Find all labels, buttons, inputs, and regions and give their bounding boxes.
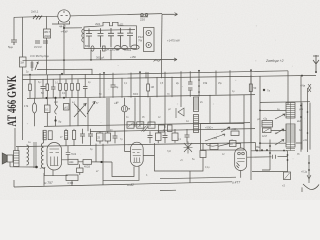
capacitor C8 electrolytic bbox=[24, 98, 37, 126]
arrow right top bbox=[162, 13, 178, 16]
switch S2 triangle bbox=[176, 108, 184, 118]
resistor R27 bbox=[230, 141, 237, 147]
junction dot right bbox=[263, 89, 265, 91]
svg-text:220: 220 bbox=[140, 18, 145, 22]
tuner block box bbox=[84, 22, 137, 48]
resistor R10 bbox=[147, 72, 154, 97]
rectifier chain right bbox=[308, 84, 311, 92]
wires bottom right bbox=[162, 142, 256, 178]
choke L1 on rail bbox=[31, 10, 42, 20]
svg-text:+1/4: +1/4 bbox=[212, 136, 218, 140]
wire stub bottom bbox=[160, 189, 176, 191]
svg-text:+50Ω+: +50Ω+ bbox=[205, 126, 213, 130]
capacitor C6 bbox=[111, 73, 119, 98]
svg-text:35a: 35a bbox=[256, 146, 261, 149]
svg-text:0,1: 0,1 bbox=[45, 107, 49, 111]
capacitor C14 bbox=[185, 129, 190, 143]
wire v150 bbox=[149, 97, 151, 126]
resistor R16b box bbox=[48, 131, 52, 140]
wire tube V3 to chain bbox=[252, 171, 288, 173]
resistor R12b bbox=[64, 104, 70, 111]
svg-text:Δ21: Δ21 bbox=[120, 23, 125, 26]
wire bus inside bbox=[84, 29, 135, 32]
IF can boxes on rail D bbox=[127, 122, 134, 128]
band switch S3 star bbox=[184, 142, 193, 154]
resistor R15b bbox=[263, 128, 272, 133]
resistor R2 box bbox=[20, 57, 27, 67]
svg-text:40Ω3: 40Ω3 bbox=[84, 166, 91, 169]
scattered value labels bbox=[26, 72, 300, 178]
wire v172 bbox=[171, 77, 173, 97]
scan speckles bbox=[25, 19, 320, 172]
capacitor C9 bbox=[80, 129, 85, 144]
capacitor C9c bbox=[66, 150, 77, 159]
tuned circuit 2 bbox=[98, 28, 104, 47]
resistor R19 box h bbox=[83, 160, 92, 169]
output transformer TR1 winding 1 bbox=[27, 145, 29, 165]
wire rail D2 bbox=[90, 129, 255, 132]
tuned circuit 3 bbox=[108, 28, 114, 47]
svg-text:1217: 1217 bbox=[262, 136, 268, 138]
wire v107 v109 pair bbox=[107, 98, 109, 132]
capacitor C15 small bbox=[247, 155, 288, 159]
junction cluster left of ladder bbox=[256, 146, 268, 152]
resistor R16 vertical hatched bbox=[65, 129, 68, 146]
wire stubs box to rail0 bbox=[91, 50, 111, 60]
wire v157 bbox=[156, 77, 158, 97]
resistor R22 bbox=[105, 132, 111, 144]
resistor R20 below bbox=[66, 175, 78, 185]
wire connectors to ladder bbox=[260, 110, 286, 143]
potentiometer R13 arrow bbox=[221, 127, 230, 132]
capacitor C3 bbox=[41, 79, 46, 98]
wire v100 bbox=[99, 73, 101, 98]
wire v210 bbox=[209, 95, 211, 124]
resistor R15 bbox=[262, 118, 273, 128]
svg-text:3 0r 3M 5μ 6μμ: 3 0r 3M 5μ 6μμ bbox=[30, 54, 49, 58]
resistor R20b small bbox=[77, 168, 84, 173]
trimmer T1 bbox=[91, 46, 94, 51]
pickup box bbox=[201, 95, 245, 150]
wave switch arrows bbox=[87, 98, 95, 131]
wire v199 dots bbox=[198, 71, 200, 97]
resistor R17 vertical bbox=[73, 129, 76, 146]
svg-text:2μF: 2μF bbox=[54, 102, 59, 104]
TR1 winding 2 bbox=[41, 143, 43, 168]
capacitor C12 bbox=[148, 131, 153, 143]
wire drop x46 lower bbox=[46, 38, 48, 74]
wire rail A bbox=[23, 71, 289, 75]
svg-text:+150: +150 bbox=[130, 55, 136, 59]
plug 220V bbox=[140, 13, 148, 21]
coil L3 circle bbox=[114, 98, 131, 152]
wire right box top bbox=[260, 101, 310, 104]
wire v135 bbox=[134, 98, 136, 127]
TR1 core bbox=[34, 142, 36, 168]
capacitor C1 bbox=[8, 40, 17, 49]
svg-text:1M: 1M bbox=[151, 86, 154, 89]
wire v30 bbox=[29, 75, 31, 84]
resistor R12 bbox=[45, 98, 51, 126]
resistor R6 bbox=[59, 74, 62, 98]
wire speaker leads bbox=[10, 128, 37, 167]
svg-text:u.dl2: u.dl2 bbox=[127, 183, 134, 187]
resistor R1 box 3817 bbox=[44, 29, 51, 38]
svg-text:u524: u524 bbox=[95, 24, 101, 26]
wire right verticals lower bbox=[296, 143, 302, 192]
svg-text:u.4T7: u.4T7 bbox=[232, 181, 240, 185]
resistor R14 bbox=[231, 128, 239, 136]
wire rail E right ext bbox=[251, 150, 287, 152]
chain right mid bbox=[262, 140, 271, 171]
wire TR1 top to rail bbox=[43, 132, 45, 144]
wire v302 low bbox=[301, 103, 303, 150]
resistor R11 bbox=[249, 70, 257, 143]
wire vertical x162 bbox=[161, 14, 164, 59]
svg-text:7W: 7W bbox=[138, 39, 143, 43]
capacitor C4 bbox=[51, 79, 56, 98]
lamp box lower bbox=[282, 172, 291, 188]
wire below R2 bbox=[22, 67, 24, 140]
svg-text:+0,1μ: +0,1μ bbox=[301, 171, 308, 174]
transformer TR2 ladder bbox=[286, 103, 295, 119]
wire bottom rail right bbox=[160, 177, 236, 179]
squiggle on rail0 end bbox=[154, 60, 161, 62]
tube V3 rectifier bbox=[235, 148, 247, 171]
V curve bottom right bbox=[303, 184, 319, 190]
trimmer T2 bbox=[103, 46, 106, 51]
junction dots rail A bbox=[29, 74, 31, 76]
wire left column x22 bbox=[22, 17, 24, 57]
wires V2 bottom bbox=[103, 143, 162, 180]
svg-text:BF8: BF8 bbox=[85, 44, 90, 48]
socket P1 bbox=[144, 28, 155, 52]
wire v131 bbox=[130, 73, 132, 98]
wire v35 bbox=[34, 79, 36, 98]
svg-text:17k: 17k bbox=[24, 104, 29, 108]
resistor R9 bbox=[77, 79, 80, 98]
svg-text:Δ2k: Δ2k bbox=[69, 161, 74, 164]
svg-text:+Na: +Na bbox=[300, 84, 306, 88]
junction dot TR1 bbox=[35, 166, 38, 169]
resistor R8 bbox=[71, 74, 74, 98]
coil L2 left bumps bbox=[82, 29, 84, 42]
svg-text:5μμ: 5μμ bbox=[8, 45, 13, 49]
chain right x309 bbox=[301, 155, 311, 183]
tube V1 output bbox=[47, 143, 62, 171]
chain below ladder bbox=[283, 150, 288, 172]
tuned circuit 5 bbox=[127, 28, 133, 47]
coil L4 bbox=[194, 97, 199, 112]
svg-text:μ01: μ01 bbox=[64, 106, 69, 109]
svg-text:15k: 15k bbox=[203, 81, 208, 85]
wire rail 0 bbox=[23, 58, 162, 61]
trimmer ovals row bbox=[115, 46, 121, 50]
switch arrow S5b bbox=[275, 129, 284, 134]
svg-text:1M: 1M bbox=[20, 61, 24, 65]
svg-text:7102: 7102 bbox=[71, 154, 77, 156]
svg-text:25μ: 25μ bbox=[218, 83, 223, 85]
svg-text:+012+: +012+ bbox=[231, 128, 238, 131]
wire rail C bbox=[27, 95, 255, 99]
wire top rail bbox=[14, 14, 162, 18]
svg-text:6800: 6800 bbox=[133, 94, 139, 96]
wire rail F bbox=[14, 182, 232, 187]
svg-text:+1475 kW: +1475 kW bbox=[167, 39, 180, 43]
resistor R18 box h bbox=[68, 159, 78, 164]
wire drop x46 bbox=[46, 16, 48, 29]
switch arrow S5c bbox=[275, 140, 284, 146]
capacitor C11 bbox=[113, 132, 118, 144]
resistor R5 bbox=[46, 75, 49, 99]
resistor R16a hatched bbox=[43, 130, 46, 140]
wire v165b bbox=[164, 97, 166, 128]
wire x161 stub bbox=[146, 60, 162, 79]
svg-text:μμ μμ: μμ μμ bbox=[34, 45, 42, 49]
capacitor C2 pair bbox=[34, 41, 48, 49]
tube V0 ballast circle bbox=[52, 10, 70, 24]
wire left drop x14 bbox=[13, 17, 15, 40]
wire feedback loop bbox=[37, 69, 92, 74]
svg-text:2μ: 2μ bbox=[176, 81, 179, 85]
svg-text:a-t: a-t bbox=[72, 101, 75, 104]
wire v230 bbox=[229, 70, 231, 123]
svg-text:Zweitspr.+2: Zweitspr.+2 bbox=[265, 59, 284, 63]
wire v122 bbox=[121, 78, 123, 98]
wire rail E bbox=[16, 143, 255, 147]
resistor R21 bbox=[97, 132, 104, 144]
wire v165 bbox=[164, 72, 166, 98]
svg-text:0,1μ: 0,1μ bbox=[205, 167, 210, 169]
coil L5 bbox=[194, 115, 199, 133]
arrow right lower bbox=[162, 58, 178, 61]
resistor R4 bbox=[29, 84, 32, 98]
tuned circuit 4 bbox=[118, 28, 124, 47]
antenna arrow top right bbox=[313, 55, 319, 71]
capacitor C7 stack bbox=[188, 71, 193, 97]
svg-text:3817: 3817 bbox=[44, 30, 50, 34]
resistor R23 bbox=[156, 131, 162, 143]
svg-text:u.T97: u.T97 bbox=[45, 181, 53, 185]
band switch S1 bbox=[54, 98, 61, 126]
wire rail B bbox=[23, 75, 317, 79]
right block outer box bbox=[251, 71, 308, 180]
wire risers to rail F bbox=[14, 171, 190, 187]
wire tube to coil bbox=[64, 24, 82, 74]
svg-text:2x0,1: 2x0,1 bbox=[31, 10, 39, 14]
svg-text:AT 466 GWK: AT 466 GWK bbox=[4, 75, 19, 127]
bottom left: speaker bbox=[2, 151, 19, 167]
switch arrow S5a bbox=[275, 114, 285, 119]
capacitor C10 bbox=[88, 129, 93, 146]
wire v181 bbox=[180, 71, 182, 107]
wire v216 bbox=[215, 71, 217, 95]
wire v140 bbox=[139, 72, 141, 127]
resistor R25 bbox=[172, 129, 178, 143]
tube V2 bbox=[131, 142, 144, 166]
wire v104 bbox=[103, 73, 105, 98]
potentiometer R3 bbox=[31, 61, 39, 71]
resistor R7 bbox=[65, 79, 68, 98]
capacitor C5 bbox=[83, 74, 88, 98]
svg-text:+2μ: +2μ bbox=[263, 118, 268, 121]
svg-text:361 μΛ: 361 μΛ bbox=[96, 56, 105, 60]
wire rail D bbox=[44, 123, 250, 127]
capacitor C13 bbox=[163, 131, 168, 143]
wires around V1 bbox=[44, 144, 112, 186]
resistor R26 bbox=[200, 143, 206, 162]
box small right bbox=[210, 144, 218, 150]
band switch X cross bbox=[70, 98, 86, 126]
svg-text:20kΩ: 20kΩ bbox=[44, 35, 50, 38]
svg-text:+7W: +7W bbox=[40, 166, 46, 170]
tuned circuit 1 bbox=[86, 29, 92, 48]
wire v310 low bbox=[309, 103, 311, 150]
